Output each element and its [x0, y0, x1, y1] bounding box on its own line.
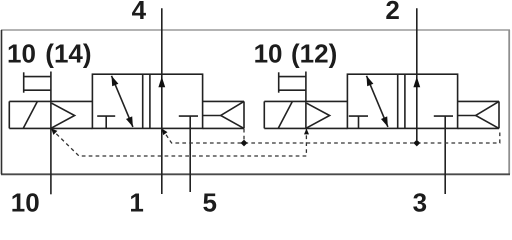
solenoid coil Y2 (pilot 12) — [264, 101, 347, 128]
valve 1 body — [92, 74, 202, 128]
enclosure frame bottom edge — [1, 173, 510, 175]
pilot supply channel from port 10 (lower dashed) — [51, 129, 306, 156]
pilot junction arrowhead at valve1 port1 node — [162, 129, 168, 135]
enclosure frame right edge — [508, 30, 510, 174]
valve 2 body — [347, 74, 457, 128]
manual override MO2 — [279, 72, 306, 102]
port 10 supply line — [50, 128, 52, 194]
svg-text:10: 10 — [11, 188, 40, 212]
manual override MO1 — [24, 72, 51, 102]
pilot control channel (upper dashed) — [162, 129, 500, 143]
pilot junction arrowhead at port10 node — [51, 129, 57, 135]
solenoid coil Y1 (pilot 14) — [9, 101, 92, 128]
svg-text:(12): (12) — [291, 38, 337, 68]
junction node diamond A — [241, 140, 248, 147]
svg-text:10: 10 — [7, 38, 36, 68]
enclosure frame left edge — [1, 30, 3, 174]
valve 2 flow path line 1->2 (port 2 top) — [413, 8, 420, 140]
valve 2 pneumatic spring return — [458, 101, 499, 128]
valve 2 blocked port T (left square) — [349, 116, 368, 128]
pilot amplifier triangle V2 — [307, 103, 330, 128]
pilot amplifier triangle V1 — [52, 103, 75, 128]
valve 1 pneumatic spring return — [203, 101, 244, 128]
valve 1 flow path line 1->4 with port lines (port 4 top, port 1 bottom) — [158, 8, 165, 194]
svg-text:4: 4 — [132, 0, 147, 25]
pilot junction arrowhead at valve2 pilot node — [304, 129, 309, 135]
svg-text:10: 10 — [254, 38, 283, 68]
valve 1 port 5 blocked T and port line — [179, 116, 198, 192]
svg-text:3: 3 — [413, 188, 427, 212]
enclosure frame top edge — [1, 29, 510, 31]
svg-text:2: 2 — [385, 0, 399, 25]
svg-text:(14): (14) — [45, 38, 91, 68]
valve 2 port 3 blocked T and port line — [434, 116, 453, 194]
svg-text:1: 1 — [129, 188, 143, 212]
junction node diamond B — [413, 140, 420, 147]
spring 1 pilot branch — [243, 129, 245, 140]
valve 1 actuated-position flow arrow (diagonal) — [112, 76, 133, 127]
valve 2 actuated-position flow arrow (diagonal) — [367, 76, 388, 127]
valve 1 blocked port T (left square) — [97, 116, 115, 128]
svg-text:5: 5 — [202, 188, 216, 212]
